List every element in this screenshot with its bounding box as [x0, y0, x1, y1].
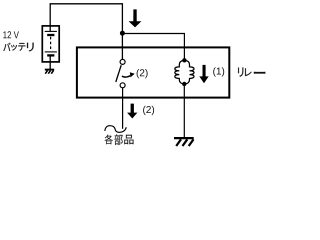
battery top cell long plate: [45, 30, 57, 32]
wire: battery positive up to top rail, right and down to switch node: [50, 4, 122, 60]
switch SW top contact circle: [120, 59, 125, 64]
current arrow: (2) to parts solid down arrow: [127, 104, 137, 119]
switch SW blade open: [116, 65, 121, 82]
node: coil top junction dot: [182, 58, 186, 62]
label: 各部品: [105, 134, 134, 145]
switch SW bottom contact circle: [120, 83, 125, 88]
current arrow: feed from battery (top, solid down arrow): [129, 9, 142, 27]
label: (2) at parts feed: [143, 106, 154, 115]
wire: junction to relay coil top: [122, 34, 184, 59]
battery bottom cell long plate: [45, 51, 57, 53]
label: バッテリ: [3, 43, 33, 52]
label: (1) at coil: [213, 67, 224, 76]
connector squiggle: to other parts: [105, 126, 127, 133]
ground: battery chassis ground: [45, 70, 54, 74]
battery bottom cell short thick plate: [47, 54, 54, 56]
node: junction dot battery feed / switch / relay coil: [120, 31, 125, 36]
label: リレー: [238, 67, 265, 76]
battery dashed middle cells: [50, 37, 52, 51]
relay coil L1 left winding: [175, 60, 185, 84]
current arrow: (1) coil current solid down arrow: [199, 65, 208, 83]
label: 12 V: [3, 31, 19, 38]
wire: battery negative to ground: [49, 55, 51, 69]
node: coil bottom junction dot: [182, 82, 186, 86]
relay enclosure box: [77, 47, 229, 97]
switch SW closing action curved arrow: [122, 72, 135, 77]
wire: switch bottom down to squiggle: [122, 88, 124, 129]
battery B1 12V case: [42, 26, 59, 62]
wire: coil bottom to chassis ground: [183, 84, 185, 137]
ground: relay chassis ground: [174, 138, 194, 146]
label: (2) at switch: [137, 69, 148, 78]
relay coil L1 right winding: [184, 60, 194, 84]
battery top cell short thick plate: [47, 34, 54, 36]
